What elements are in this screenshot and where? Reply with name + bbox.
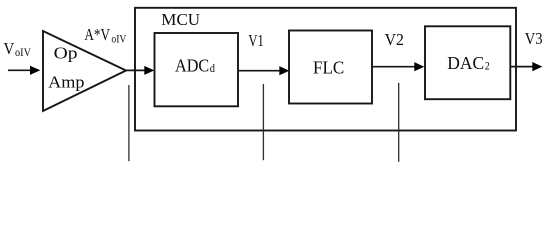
node A*VoIV gain output label [84, 25, 126, 45]
svg-text:V3: V3 [525, 29, 543, 48]
MCU enclosure box [135, 8, 516, 131]
svg-text:d: d [210, 61, 215, 75]
probe line 2 below V1 node [262, 84, 264, 160]
label DAC2 [447, 53, 489, 73]
op-amp U1 triangle [43, 31, 126, 111]
block FLC [289, 31, 372, 104]
op-amp label Op [54, 43, 78, 62]
block ADCd [155, 33, 239, 106]
label FLC [313, 58, 344, 78]
wire V1 ADC to FLC [238, 66, 289, 75]
node V2 label [385, 30, 404, 49]
svg-text:V: V [4, 39, 15, 58]
svg-text:MCU: MCU [161, 10, 200, 29]
svg-text:oIV: oIV [15, 45, 31, 59]
wire V3 DAC output [511, 62, 543, 71]
wire input arrow into op-amp [8, 66, 40, 75]
node V1 label [248, 31, 263, 50]
svg-text:Amp: Amp [48, 72, 84, 91]
block DAC2 [425, 26, 510, 99]
wire op-amp output to ADC with arrowhead [125, 66, 154, 75]
node VoIV input label [4, 39, 32, 59]
node V3 label [525, 29, 543, 48]
probe line 3 below V2 node [398, 83, 400, 162]
svg-text:ADC: ADC [175, 55, 209, 75]
svg-text:oIV: oIV [111, 31, 126, 45]
wire V2 FLC to DAC [372, 62, 424, 71]
op-amp label Amp [48, 72, 84, 91]
label ADCd [175, 55, 215, 75]
svg-text:FLC: FLC [313, 58, 344, 78]
svg-text:A*V: A*V [84, 25, 110, 44]
svg-text:Op: Op [54, 43, 78, 62]
svg-text:2: 2 [485, 59, 490, 73]
svg-text:DAC: DAC [447, 53, 484, 73]
probe line 1 below op-amp output node [128, 85, 130, 161]
MCU label [161, 10, 200, 29]
svg-text:V2: V2 [385, 30, 404, 49]
svg-text:V1: V1 [248, 31, 263, 50]
